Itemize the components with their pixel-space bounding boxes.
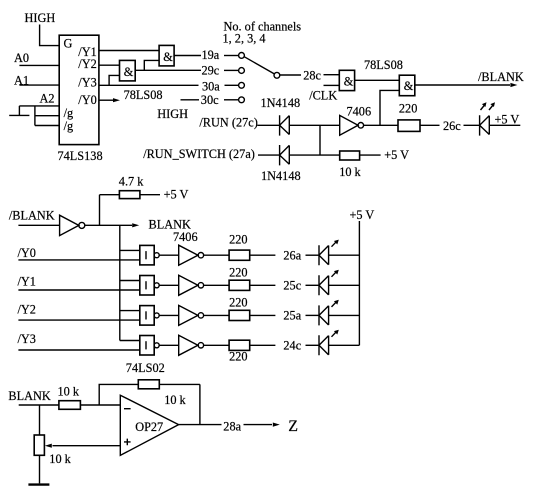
wire 26a to LED D4	[306, 254, 320, 256]
resistor R3 4.7 k	[119, 191, 139, 199]
svg-text:/BLANK: /BLANK	[478, 70, 524, 84]
LED D5 emission arrow	[332, 272, 337, 277]
resistor R2 10 k	[340, 151, 360, 160]
wire R5 to 25c	[250, 284, 276, 286]
wire /Y3 to gate G4	[18, 349, 139, 351]
wire /Y2 to gate U2a	[99, 64, 120, 66]
svg-text:25a: 25a	[283, 309, 301, 323]
svg-text:19a: 19a	[202, 48, 220, 62]
LED D7	[319, 335, 329, 355]
svg-text:10 k: 10 k	[58, 385, 80, 399]
decoder U1 74LS138	[59, 35, 99, 144]
svg-text:30a: 30a	[202, 79, 220, 93]
op-amp U7 OP27	[120, 395, 178, 455]
svg-text:/g: /g	[64, 119, 74, 133]
switch S1 wiper	[244, 57, 274, 74]
wire 25a to LED D6	[306, 314, 320, 316]
svg-text:/Y0: /Y0	[18, 246, 36, 260]
ground	[28, 483, 49, 485]
wire 29c to contact	[224, 69, 239, 71]
LED D7 emission arrow	[332, 332, 337, 337]
svg-text:74LS138: 74LS138	[58, 149, 103, 163]
svg-text:220: 220	[229, 296, 247, 310]
and-gate U3b 78LS08	[399, 75, 415, 96]
svg-text:7406: 7406	[173, 230, 198, 244]
wire pot to ground	[39, 455, 41, 483]
wire 30c stub	[181, 99, 200, 101]
wire 25c to LED D5	[306, 284, 320, 286]
inverter U4a 7406	[340, 115, 358, 135]
contact circle 30c	[239, 97, 245, 103]
wire BLANK stub to gate G4	[120, 340, 140, 342]
wire LED D7 to +5V bus	[329, 344, 360, 346]
svg-text:/Y2: /Y2	[18, 303, 36, 317]
wire /Y2 to gate G3	[18, 319, 139, 321]
wire 28c to gate U3a	[324, 74, 340, 76]
wire 24c to LED D7	[306, 344, 320, 346]
svg-text:7406: 7406	[347, 105, 372, 119]
wire R2 to +5V	[359, 154, 380, 156]
svg-text:&: &	[344, 74, 354, 88]
contact circle 19a	[239, 53, 245, 59]
nor-gate G1 74LS02	[140, 245, 154, 265]
wire G3 to inverter U6c	[159, 314, 179, 316]
wire D1 to 7406 input	[289, 124, 339, 126]
wire R6 to 25a	[250, 314, 276, 316]
wire U6d to resistor R7	[204, 344, 230, 346]
and-gate U2b 78LS08	[159, 45, 174, 66]
wire G2 to inverter U6b	[159, 284, 179, 286]
resistor R7 220	[229, 340, 250, 350]
svg-text:78LS08: 78LS08	[364, 58, 403, 72]
wire U6c to resistor R6	[204, 314, 230, 316]
LED D6 emission arrow	[332, 302, 337, 307]
op-amp plus sign	[124, 439, 131, 446]
wire R1 to 26c	[420, 124, 440, 126]
svg-text:78LS08: 78LS08	[124, 88, 163, 102]
wire op-amp output to 28a	[179, 424, 222, 426]
wire U4a output to resistor	[364, 124, 398, 126]
LED D4	[319, 245, 329, 265]
and-gate U3a 78LS08	[339, 70, 354, 90]
svg-text:/Y1: /Y1	[18, 275, 36, 289]
wire LED D5 to +5V bus	[329, 284, 360, 286]
contact circle 29c	[239, 68, 245, 74]
contact circle 30a	[239, 82, 245, 88]
wire LED1 to +5V	[489, 124, 520, 126]
wire LED D4 to +5V bus	[329, 254, 360, 256]
svg-text:/Y0: /Y0	[78, 93, 96, 107]
svg-text:+5 V: +5 V	[350, 208, 375, 222]
diode D2 1N4148	[280, 145, 290, 165]
wire U5 output BLANK	[85, 224, 132, 226]
wire 19a to contact	[224, 55, 239, 57]
wire +5V vertical bus	[358, 221, 360, 345]
inverter U6c 7406	[179, 305, 198, 325]
svg-text:G: G	[64, 36, 73, 50]
svg-text:220: 220	[399, 102, 417, 116]
wire A2 to decoder	[19, 105, 59, 107]
wire R3 right to +5V	[140, 194, 160, 196]
wire HIGH to G input	[40, 25, 60, 46]
LED D3	[480, 115, 490, 135]
svg-text:1N4148: 1N4148	[261, 169, 301, 183]
wire U2a output to 29c	[135, 69, 201, 71]
svg-text:1, 2, 3, 4: 1, 2, 3, 4	[223, 31, 266, 45]
wire U6a to resistor R4	[204, 254, 230, 256]
resistor R1 220	[398, 120, 420, 131]
svg-text:26a: 26a	[283, 248, 301, 262]
svg-text:/RUN (27c): /RUN (27c)	[199, 116, 257, 130]
inverter U6d 7406	[179, 335, 198, 355]
inverter U6a 7406	[179, 245, 198, 265]
wire U2a output branch to U2b	[144, 60, 159, 70]
and-gate U2a 78LS08	[120, 60, 136, 81]
svg-text:OP27: OP27	[135, 420, 163, 434]
wire op-amp non-inverting input to pot wiper	[53, 445, 121, 447]
svg-text:26c: 26c	[443, 119, 461, 133]
svg-text:10 k: 10 k	[339, 165, 361, 179]
svg-text:+5 V: +5 V	[384, 148, 409, 162]
resistor R9 10 k (feedback)	[138, 380, 159, 389]
diode D1 1N4148	[280, 115, 290, 135]
resistor R4 220	[229, 250, 250, 260]
svg-text:+5 V: +5 V	[495, 113, 520, 127]
wire feedback tap	[99, 384, 138, 405]
wire A2 edge step	[9, 106, 29, 116]
wire LED D6 to +5V bus	[329, 314, 360, 316]
svg-text:&: &	[163, 50, 173, 64]
nor-gate G2 74LS02	[140, 276, 154, 296]
wire /Y1 to gate G2	[18, 289, 139, 291]
wire BLANK node down to pot	[39, 405, 41, 435]
LED D5	[319, 275, 329, 295]
wire U6b to resistor R5	[204, 284, 230, 286]
wire BLANK stub to gate G3	[120, 310, 140, 312]
svg-text:+5 V: +5 V	[164, 188, 189, 202]
LED D4 emission arrow	[332, 242, 337, 247]
svg-text:30c: 30c	[201, 93, 219, 107]
wire /Y0 to gate G1	[18, 259, 139, 261]
wire /BLANK to inverter U5	[18, 224, 59, 226]
svg-text:10 k: 10 k	[49, 452, 71, 466]
resistor R5 220	[229, 280, 250, 290]
svg-text:BLANK: BLANK	[8, 389, 50, 403]
wire G1 to inverter U6a	[159, 254, 179, 256]
svg-text:HIGH: HIGH	[157, 107, 188, 121]
wire BLANK to resistor R8	[19, 404, 59, 406]
svg-text:29c: 29c	[202, 63, 220, 77]
svg-text:74LS02: 74LS02	[126, 361, 165, 375]
wire BLANK stub to gate G2	[120, 280, 140, 282]
wire A1 to decoder	[19, 84, 59, 86]
wire 26c to LED1	[464, 124, 480, 126]
resistor R6 220	[229, 310, 250, 320]
svg-text:24c: 24c	[283, 339, 301, 353]
op-amp minus sign	[124, 408, 131, 410]
resistor R8 10 k	[59, 401, 81, 410]
svg-text:Z: Z	[288, 418, 298, 435]
wire R9 to output node	[159, 384, 200, 424]
wire /Y3 branch to gate U2a	[109, 75, 119, 85]
wire feedback from 7406 output up to U3b input	[380, 90, 399, 125]
wire U3b output to /BLANK	[415, 84, 510, 86]
wire 28a to Z with arrow	[244, 424, 273, 426]
nor-gate G4 74LS02	[140, 336, 154, 356]
switch wiper contact circle	[274, 72, 280, 78]
svg-text:A0: A0	[14, 51, 29, 65]
svg-text:1N4148: 1N4148	[261, 96, 301, 110]
wire U2b output to 19a	[174, 55, 201, 57]
wire R7 to 24c	[250, 344, 276, 346]
svg-text:/BLANK: /BLANK	[9, 208, 55, 222]
svg-text:28c: 28c	[303, 68, 321, 82]
svg-text:220: 220	[229, 349, 247, 363]
potentiometer R10 10 k	[34, 435, 44, 455]
wire 30c to contact	[224, 99, 239, 101]
svg-text:10 k: 10 k	[164, 393, 186, 407]
svg-text:/Y3: /Y3	[78, 75, 96, 89]
svg-text:25c: 25c	[283, 279, 301, 293]
svg-text:&: &	[124, 65, 134, 79]
wire A0 to decoder	[19, 64, 59, 66]
wire /RUN_SWITCH to diode D2	[258, 154, 280, 156]
inverter U5	[60, 215, 79, 235]
svg-text:28a: 28a	[223, 420, 241, 434]
wire /CLK stub to gate U3a	[324, 84, 340, 86]
svg-text:&: &	[404, 79, 414, 93]
LED D3 emission arrows	[481, 105, 494, 111]
wire junction D1/D2	[319, 125, 321, 155]
wire 30a to contact	[225, 84, 239, 86]
wire BLANK vertical bus	[119, 225, 121, 340]
inverter U6b 7406	[179, 275, 198, 295]
wire R3 left to BLANK net	[100, 195, 120, 226]
wire wiper to 28c	[280, 74, 301, 76]
wire /Y1 to gate U2b	[99, 50, 159, 52]
wire /RUN to diode D1	[257, 124, 279, 126]
wire /Y0 stub with arrow	[99, 99, 113, 101]
svg-text:HIGH: HIGH	[25, 11, 56, 25]
wire R8 to op-amp inverting input	[80, 404, 120, 406]
wire D2 to resistor R2	[289, 154, 339, 156]
LED D6	[319, 305, 329, 325]
wire /Y3 to 30a	[99, 84, 199, 86]
wire U3a output to U3b	[355, 79, 400, 81]
wire R4 to 26a	[250, 254, 276, 256]
svg-text:220: 220	[229, 265, 247, 279]
wire A2 to /g enables	[35, 106, 59, 126]
wire BLANK stub to gate G1	[120, 249, 140, 251]
svg-text:4.7 k: 4.7 k	[119, 175, 144, 189]
svg-text:/CLK: /CLK	[309, 88, 337, 102]
wire G4 to inverter U6d	[159, 344, 179, 346]
svg-text:A2: A2	[40, 92, 55, 106]
svg-text:/RUN_SWITCH (27a): /RUN_SWITCH (27a)	[143, 147, 255, 161]
nor-gate G3 74LS02	[140, 306, 154, 326]
svg-text:/Y3: /Y3	[18, 332, 36, 346]
svg-text:/Y2: /Y2	[78, 57, 96, 71]
svg-text:220: 220	[229, 233, 247, 247]
